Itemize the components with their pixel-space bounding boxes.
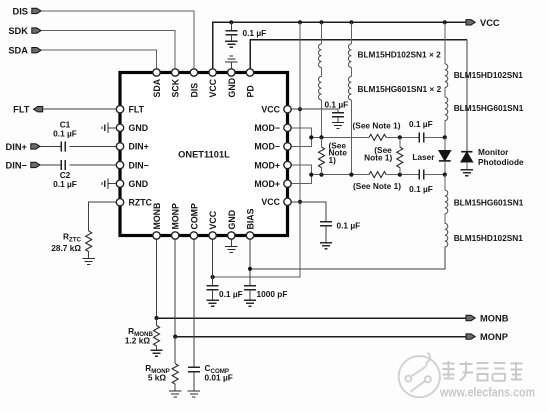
wire MONB output [157, 317, 467, 319]
pin MONB [152, 203, 162, 240]
port SDA input tag [8, 46, 41, 56]
wire COMP riser [193, 239, 195, 367]
ground below lower right bypass [320, 243, 332, 249]
svg-text:28.7 kΩ: 28.7 kΩ [51, 243, 81, 253]
capacitor C2 0.1 uF (series, DIN-) [53, 160, 77, 189]
wire laser cathode to bias inductor [444, 175, 446, 191]
svg-text:VCC: VCC [261, 197, 280, 207]
ground below CCOMP [188, 391, 200, 397]
junction VCC rail at MOD+ inductor [349, 20, 353, 24]
wire between inductors [350, 68, 352, 77]
svg-text:COMP: COMP [189, 203, 199, 230]
pin SDA [152, 69, 162, 98]
ground at left GND pin 2 [102, 178, 116, 189]
pin BIAS [246, 208, 256, 239]
wire MOD+ to series cap [386, 174, 419, 176]
wire inductor column x=321.5 top [321, 22, 323, 44]
svg-text:DIN−: DIN− [129, 160, 149, 170]
svg-text:0.1 µF: 0.1 µF [409, 119, 433, 129]
capacitor 0.1 uF (top bypass) [225, 22, 266, 41]
resistor RMONP 5 kOhm [145, 337, 178, 385]
pin GND left2 [116, 179, 148, 189]
wire VCC vertical bus x=300 [213, 22, 300, 277]
svg-text:VCC: VCC [208, 210, 218, 229]
svg-text:GND: GND [227, 78, 237, 98]
svg-text:MOD+: MOD+ [254, 179, 280, 189]
junction MOD+ at damping resistor [398, 173, 402, 177]
pin VCC top [208, 69, 218, 98]
port SDK input tag [8, 26, 41, 36]
svg-text:FLT: FLT [129, 105, 145, 115]
ground below 1000 pF [244, 300, 256, 306]
junction VCC rail at MOD- inductor [319, 20, 323, 24]
resistor series (See Note 1) on MOD+ line [353, 172, 401, 191]
wire RZTC pin to resistor [89, 202, 117, 231]
junction MOD+ at inductor column [349, 173, 353, 177]
junction MONP node [173, 335, 177, 339]
port VCC output tag [466, 18, 500, 28]
capacitor CCOMP 0.01 uF [188, 363, 233, 391]
capacitor 0.1 uF (lower right bypass) [320, 221, 360, 243]
ground below bottom bypass [206, 300, 218, 306]
pin DIN+ [116, 142, 148, 152]
watermark logo elecfans [399, 353, 440, 398]
svg-text:DIS: DIS [13, 6, 29, 16]
junction MOD+ bracket [309, 173, 313, 177]
pin GND bottom [227, 210, 237, 239]
inductor BLM15HG601SN1 (laser anode) [445, 97, 524, 121]
svg-text:VCC: VCC [480, 18, 500, 28]
svg-text:GND: GND [227, 210, 237, 230]
pin VCC bottom [208, 210, 218, 239]
junction laser anode node [443, 135, 447, 139]
port MONP output tag [466, 332, 508, 342]
inductor BLM15HD102SN1 (MOD- branch) [319, 44, 322, 68]
svg-text:MONP: MONP [480, 332, 508, 342]
junction MOD+ at shunt resistor [319, 173, 323, 177]
svg-text:BLM15HD102SN1 × 2: BLM15HD102SN1 × 2 [358, 50, 442, 60]
wire PD pin to monitor photodiode [250, 40, 467, 69]
svg-text:ONET1101L: ONET1101L [178, 150, 230, 160]
port DIN+ input tag [6, 142, 40, 152]
svg-text:MOD−: MOD− [254, 142, 280, 152]
port DIS input tag [13, 6, 42, 16]
svg-text:DIN+: DIN+ [129, 142, 149, 152]
svg-text:GND: GND [129, 179, 149, 189]
svg-text:1000 pF: 1000 pF [257, 289, 288, 299]
wire SDK input to pin SCK [41, 31, 175, 69]
capacitor 0.1 uF series MOD- [409, 119, 433, 142]
resistor damping (See Note 1) between MOD lines [364, 137, 403, 174]
svg-text:GND: GND [129, 123, 149, 133]
junction laser cathode node [443, 173, 447, 177]
junction VCC vertical at bottom right VCC pin [298, 200, 302, 204]
wire laser column top [444, 22, 446, 64]
pin DIS [189, 69, 199, 98]
svg-text:BLM15HG601SN1: BLM15HG601SN1 [454, 197, 524, 207]
svg-text:VCC: VCC [208, 78, 218, 97]
inductor BLM15HD102SN1 (MOD+ branch) [348, 44, 351, 68]
resistor series (See Note 1) on MOD- line [353, 121, 401, 141]
capacitor C1 0.1 uF (series, DIN+) [53, 119, 77, 151]
capacitor 1000 pF (BIAS) [244, 286, 287, 301]
svg-text:www.elecfans.com: www.elecfans.com [439, 385, 535, 400]
svg-text:5 kΩ: 5 kΩ [148, 372, 167, 382]
wire right VCC pin (top) to bypass cap [291, 109, 338, 112]
wire MONB riser and resistor [156, 239, 158, 318]
label BLM15HG601SN1 x2 [358, 84, 442, 94]
svg-text:MOD−: MOD− [254, 123, 280, 133]
svg-text:0.1 µF: 0.1 µF [409, 184, 433, 194]
junction VCC rail at laser column [443, 20, 447, 24]
wire series cap to laser anode node [424, 136, 445, 138]
wire between laser inductors [444, 88, 446, 98]
svg-text:DIN−: DIN− [6, 160, 28, 170]
pin FLT [116, 105, 144, 115]
svg-text:RZTC: RZTC [63, 232, 82, 244]
pin MOD+ 1 [254, 160, 291, 170]
svg-text:MOD+: MOD+ [254, 160, 280, 170]
svg-text:1.2 kΩ: 1.2 kΩ [125, 335, 150, 345]
wire MOD- pins bracket [291, 128, 311, 147]
ground at bottom GND pin [225, 239, 237, 252]
svg-text:0.1 µF: 0.1 µF [53, 179, 77, 189]
watermark url [439, 385, 535, 400]
ground below RMONB [150, 350, 162, 356]
svg-text:Laser: Laser [412, 152, 435, 162]
inductor BLM15HG601SN1 (MOD- branch) [319, 76, 322, 100]
wire RMONB to ground [156, 346, 158, 350]
wire BIAS riser [249, 239, 251, 285]
resistor shunt (See Note 1) across MOD lines [319, 137, 348, 174]
wire RMONP to ground [174, 384, 176, 391]
wire photodiode anode riser [466, 40, 468, 152]
svg-text:FLT: FLT [13, 105, 30, 115]
pin MOD+ 2 [254, 179, 291, 189]
svg-text:BLM15HG601SN1: BLM15HG601SN1 [454, 103, 524, 113]
pin DIN- [116, 160, 148, 170]
port FLT output tag [13, 105, 43, 115]
wire MOD+ pins bracket [291, 165, 311, 184]
ground at left GND pin 1 [102, 123, 116, 134]
svg-text:BIAS: BIAS [246, 208, 256, 229]
port MONB output tag [466, 314, 509, 324]
junction VCC vertical at top right VCC pin [298, 107, 302, 111]
svg-text:BLM15HG601SN1 × 2: BLM15HG601SN1 × 2 [358, 84, 442, 94]
inductor BLM15HG601SN1 (bias) [445, 190, 524, 214]
ground below top bypass cap [225, 41, 237, 47]
svg-text:SCK: SCK [171, 78, 181, 97]
inductor BLM15HG601SN1 (MOD+ branch) [348, 76, 351, 100]
svg-text:0.1 µF: 0.1 µF [243, 28, 267, 38]
svg-text:DIN+: DIN+ [6, 142, 28, 152]
wire between bias inductors [444, 214, 446, 224]
svg-text:0.1 µF: 0.1 µF [337, 221, 361, 231]
wire MONP output [175, 336, 466, 338]
capacitor 0.1 uF (MOD side bypass) [325, 99, 349, 122]
pin RZTC [116, 198, 152, 208]
svg-text:BLM15HD102SN1: BLM15HD102SN1 [454, 70, 524, 80]
junction at chip bottom VCC riser [211, 275, 215, 279]
capacitor 0.1 uF (bottom bypass) [207, 286, 243, 301]
wire DIN+ input [40, 145, 116, 147]
port DIN- input tag [6, 160, 40, 170]
svg-text:BLM15HD102SN1: BLM15HD102SN1 [454, 233, 524, 243]
svg-text:1): 1) [329, 155, 337, 165]
svg-text:Photodiode: Photodiode [478, 157, 524, 167]
svg-text:Monitor: Monitor [478, 147, 509, 157]
label BLM15HD102SN1 x2 [358, 50, 442, 60]
resistor RMONB 1.2 kOhm [125, 318, 160, 346]
resistor RZTC 28.7 kOhm [51, 231, 91, 253]
wire bias inductor to BIAS pin line [250, 247, 445, 269]
pin PD [246, 69, 256, 98]
pin SCK [171, 69, 181, 98]
svg-text:0.1 µF: 0.1 µF [53, 128, 77, 138]
svg-text:SDA: SDA [8, 46, 28, 56]
junction MOD- at damping resistor [398, 135, 402, 139]
wire MOD- to series cap [386, 136, 419, 138]
svg-text:0.01 µF: 0.01 µF [205, 372, 233, 382]
VCC rail wire (top) [213, 22, 466, 71]
wire MONP riser [174, 239, 176, 336]
laser diode D1 [412, 137, 450, 174]
ground below MOD side bypass [332, 123, 344, 129]
pin GND left1 [116, 123, 148, 133]
svg-text:Note 1): Note 1) [364, 153, 392, 163]
pin MOD- 1 [254, 123, 291, 133]
svg-text:0.1 µF: 0.1 µF [219, 289, 243, 299]
wire series cap to laser cathode node [424, 174, 445, 176]
junction on VCC rail at C bypass [229, 20, 233, 24]
wire SDA input to pin SDA [41, 50, 157, 69]
wire inductor to laser anode node [444, 121, 446, 138]
capacitor 0.1 uF series MOD+ [409, 170, 433, 195]
wire DIN- input [40, 164, 116, 166]
svg-text:RZTC: RZTC [129, 198, 153, 208]
ground (inverted) above top GND pin [225, 56, 237, 69]
wire DIS input to pin DIS [41, 11, 194, 69]
svg-text:MONP: MONP [171, 203, 181, 230]
wire FLT pin to output [43, 108, 117, 110]
inductor BLM15HD102SN1 (bias) [445, 223, 523, 247]
wire inductor column x=351.4 top [350, 22, 352, 44]
pin MOD- 2 [254, 142, 291, 152]
svg-text:SDK: SDK [8, 26, 28, 36]
wire MOD+ node horizontal [311, 174, 369, 176]
svg-text:MONB: MONB [152, 203, 162, 230]
junction BIAS node [248, 267, 252, 271]
wire RZTC resistor to ground [88, 252, 90, 259]
wire chip VCC bottom riser [212, 239, 214, 285]
svg-text:VCC: VCC [261, 105, 280, 115]
pin COMP [189, 203, 199, 239]
wire right VCC pin (bottom) to bypass cap [291, 202, 326, 222]
wire between inductors [321, 68, 323, 77]
pin MONP [171, 203, 181, 239]
junction MOD- bracket [309, 135, 313, 139]
pin VCC right bottom [261, 197, 291, 207]
ground below photodiode [461, 170, 473, 176]
junction VCC rail / VCC vertical [298, 20, 302, 24]
svg-text:SDA: SDA [152, 78, 162, 97]
wire inductor to MOD- node [321, 100, 323, 137]
ground below RMONP [169, 391, 181, 397]
svg-text:(See Note 1): (See Note 1) [353, 121, 401, 131]
wire inductor to MOD+ node [350, 100, 352, 175]
watermark text [443, 361, 523, 381]
photodiode D2 monitor [461, 147, 524, 170]
wire MOD- node horizontal [311, 136, 369, 138]
svg-text:PD: PD [246, 85, 256, 97]
junction MONB node [154, 316, 158, 320]
svg-text:(See Note 1): (See Note 1) [353, 181, 401, 191]
pin GND top [227, 69, 237, 98]
svg-text:DIS: DIS [189, 83, 199, 98]
svg-text:MONB: MONB [480, 314, 509, 324]
ground below RZTC [83, 259, 95, 265]
chip U1 ONET1101L body [120, 73, 288, 236]
pin VCC right top [261, 105, 291, 115]
svg-text:0.1 µF: 0.1 µF [325, 99, 349, 109]
junction MOD- at shunt resistor [319, 135, 323, 139]
inductor BLM15HD102SN1 (laser anode) [445, 64, 523, 88]
